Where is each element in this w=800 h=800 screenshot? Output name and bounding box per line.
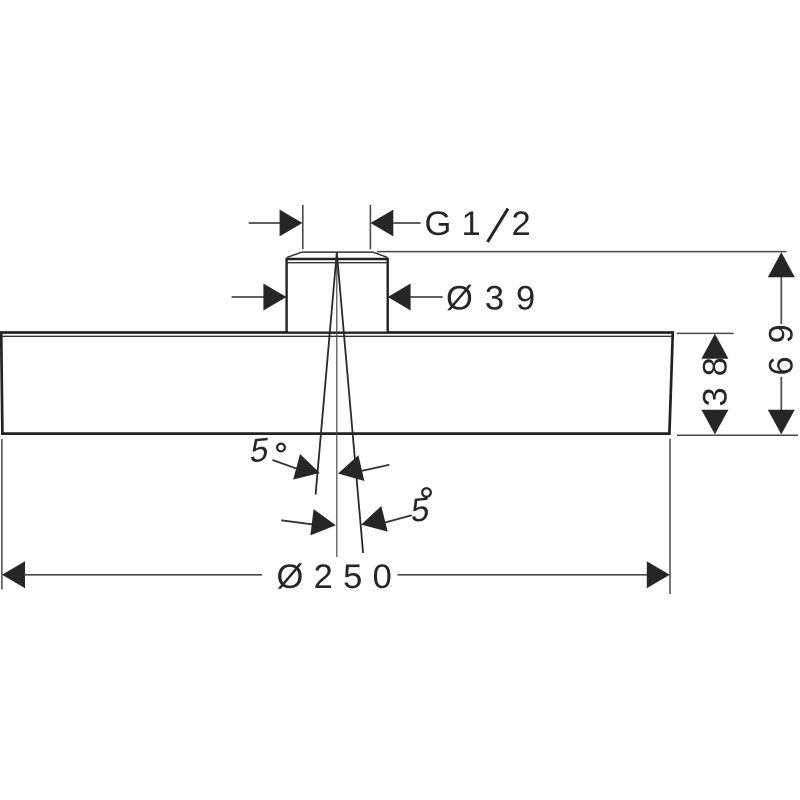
svg-text:Ø39: Ø39 [446,280,547,318]
5deg upper-left arrow [293,454,323,486]
shower plate outline [1,333,673,434]
svg-text:69: 69 [763,311,800,375]
69 arrow up [768,252,795,277]
G1/2 arrow left [280,210,303,237]
dia250 dimension line right [398,574,648,576]
dia39 leader left [232,296,264,298]
38 arrow down [701,410,728,435]
connector shoulder line [287,262,387,264]
dia250 dimension line left [24,574,262,576]
svg-text:1: 1 [462,205,481,243]
69 dimension line upper [780,277,782,324]
5deg lower-left leader [281,520,312,524]
svg-text:G: G [425,205,452,243]
svg-text:2: 2 [512,205,531,243]
5deg right degree circle [422,488,431,497]
5deg lower-left arrow [310,509,337,538]
5deg lower-right leader [385,515,412,522]
69 top extension line [377,251,787,253]
dia250 extension line left [1,439,3,590]
G1/2 extension line right [369,205,371,249]
dia250 extension line right [669,439,671,594]
plate top inner line [2,335,672,337]
dia39 leader right [411,296,443,298]
38 arrow up [701,334,728,359]
5deg upper-right leader [361,465,389,471]
38 bottom extension line [677,434,798,436]
dia250 arrow left [2,561,25,588]
svg-text:5: 5 [248,431,271,470]
left spray line 5deg [316,253,337,495]
svg-text:Ø250: Ø250 [277,558,403,596]
G1/2 dimension leader right [393,222,420,224]
dia250 arrow right [647,561,670,588]
center line [336,253,338,558]
svg-text:38: 38 [697,346,735,406]
G1/2 dimension leader left [249,222,280,224]
69 dimension line lower [780,377,782,410]
5deg left leader [273,460,301,470]
5deg left degree circle [277,444,285,452]
5deg upper-right arrow [335,455,364,486]
69 arrow down [768,410,795,435]
G1/2 extension line left [302,205,304,249]
right spray line 5deg [337,253,363,554]
connector body [287,259,388,332]
dia39 arrow left [263,284,286,311]
38 top extension line [677,332,734,334]
dia39 arrow right [388,284,411,311]
connector cap [287,252,387,257]
G1/2 arrow right [371,210,394,237]
5deg lower-right arrow [358,506,388,537]
